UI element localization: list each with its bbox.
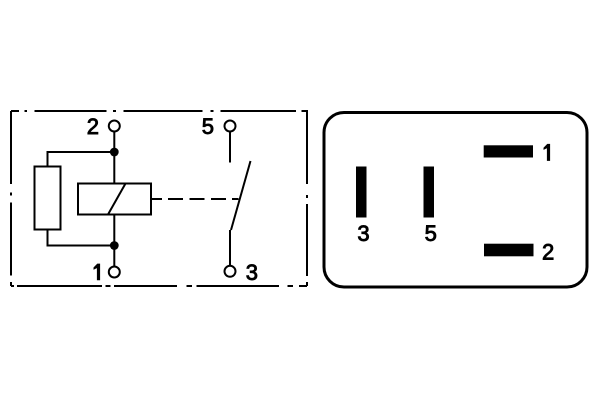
svg-text:2: 2 (542, 240, 554, 265)
wire switch to terminal 3 (229, 230, 231, 266)
label terminal 1 (94, 264, 101, 281)
svg-text:5: 5 (425, 221, 437, 246)
terminal 2 circle (109, 121, 120, 132)
dash-dot border box bottom (11, 285, 307, 287)
connector body outline (324, 113, 587, 288)
wire junction to terminal 1 (113, 246, 115, 267)
wire coil to junction bottom (113, 215, 115, 246)
wire terminal 5 down (229, 132, 231, 163)
dash-dot border box top (11, 110, 307, 112)
terminal 1 circle (109, 267, 120, 278)
switch contact arm (231, 161, 251, 230)
svg-text:5: 5 (202, 114, 214, 139)
junction dot bottom (110, 241, 119, 250)
dash-dot border box right (306, 110, 308, 286)
connector pin 1 blade (484, 145, 533, 157)
connector pin 2 blade (484, 244, 534, 257)
terminal 5 circle (225, 121, 236, 132)
connector pin 5 blade (424, 167, 435, 218)
dash-dot border box left (10, 111, 12, 286)
wire resistor bottom to junction (48, 230, 115, 246)
wire terminal 2 to coil (113, 132, 115, 185)
connector pin 3 blade (356, 167, 367, 218)
resistor R1 (35, 167, 61, 230)
svg-text:3: 3 (246, 260, 258, 285)
svg-text:3: 3 (357, 221, 369, 246)
dashed actuation line (151, 198, 239, 200)
svg-text:2: 2 (87, 114, 99, 139)
junction dot top (110, 148, 119, 157)
wire junction to resistor top (48, 152, 115, 167)
connector pin 1 label (544, 144, 551, 161)
terminal 3 circle (225, 266, 236, 277)
relay coil diagonal (108, 184, 126, 215)
relay coil K1 box (78, 184, 151, 215)
